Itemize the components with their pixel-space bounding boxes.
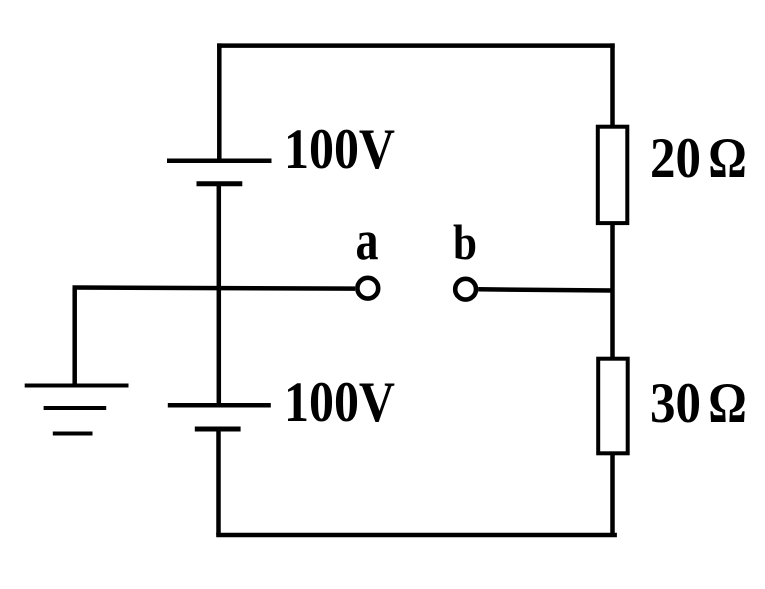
wire right vertical middle (R1 to R2, node b junction): [610, 225, 615, 357]
ground bar 3: [53, 432, 93, 436]
wire left vertical lower (V2 to bottom wire): [216, 429, 221, 535]
wire left vertical middle (V1 to battery V2): [217, 184, 222, 405]
svg-text:b: b: [453, 215, 477, 270]
battery V2 short plate (-): [195, 427, 241, 432]
wire top horizontal: [217, 43, 615, 48]
svg-text:100V: 100V: [284, 371, 395, 434]
battery V1 long plate (+): [167, 158, 272, 163]
ground bar 2: [44, 406, 107, 410]
svg-text:100V: 100V: [284, 118, 395, 181]
node a terminal circle: [357, 278, 378, 299]
wire left vertical upper (top wire to battery V1): [217, 43, 222, 160]
node b terminal circle: [455, 279, 476, 300]
wire ground stem: [72, 288, 77, 386]
wire node b to right branch: [478, 289, 612, 290]
svg-text:a: a: [356, 209, 379, 272]
svg-text:Ω: Ω: [708, 372, 747, 435]
resistor R2 body (30 ohm): [598, 359, 628, 454]
wire bottom horizontal: [216, 533, 617, 538]
battery V2 long plate (+): [168, 403, 271, 408]
wire middle horizontal to node a: [73, 288, 356, 289]
svg-text:20: 20: [650, 127, 701, 190]
svg-text:30: 30: [650, 372, 701, 435]
ground bar 1: [25, 384, 129, 388]
svg-text:Ω: Ω: [708, 127, 747, 190]
wire right vertical upper (top wire to resistor R1): [610, 43, 615, 125]
battery V1 short plate (-): [197, 181, 243, 186]
resistor R1 body (20 ohm): [598, 127, 628, 223]
wire right vertical lower (R2 to bottom wire): [610, 453, 615, 535]
